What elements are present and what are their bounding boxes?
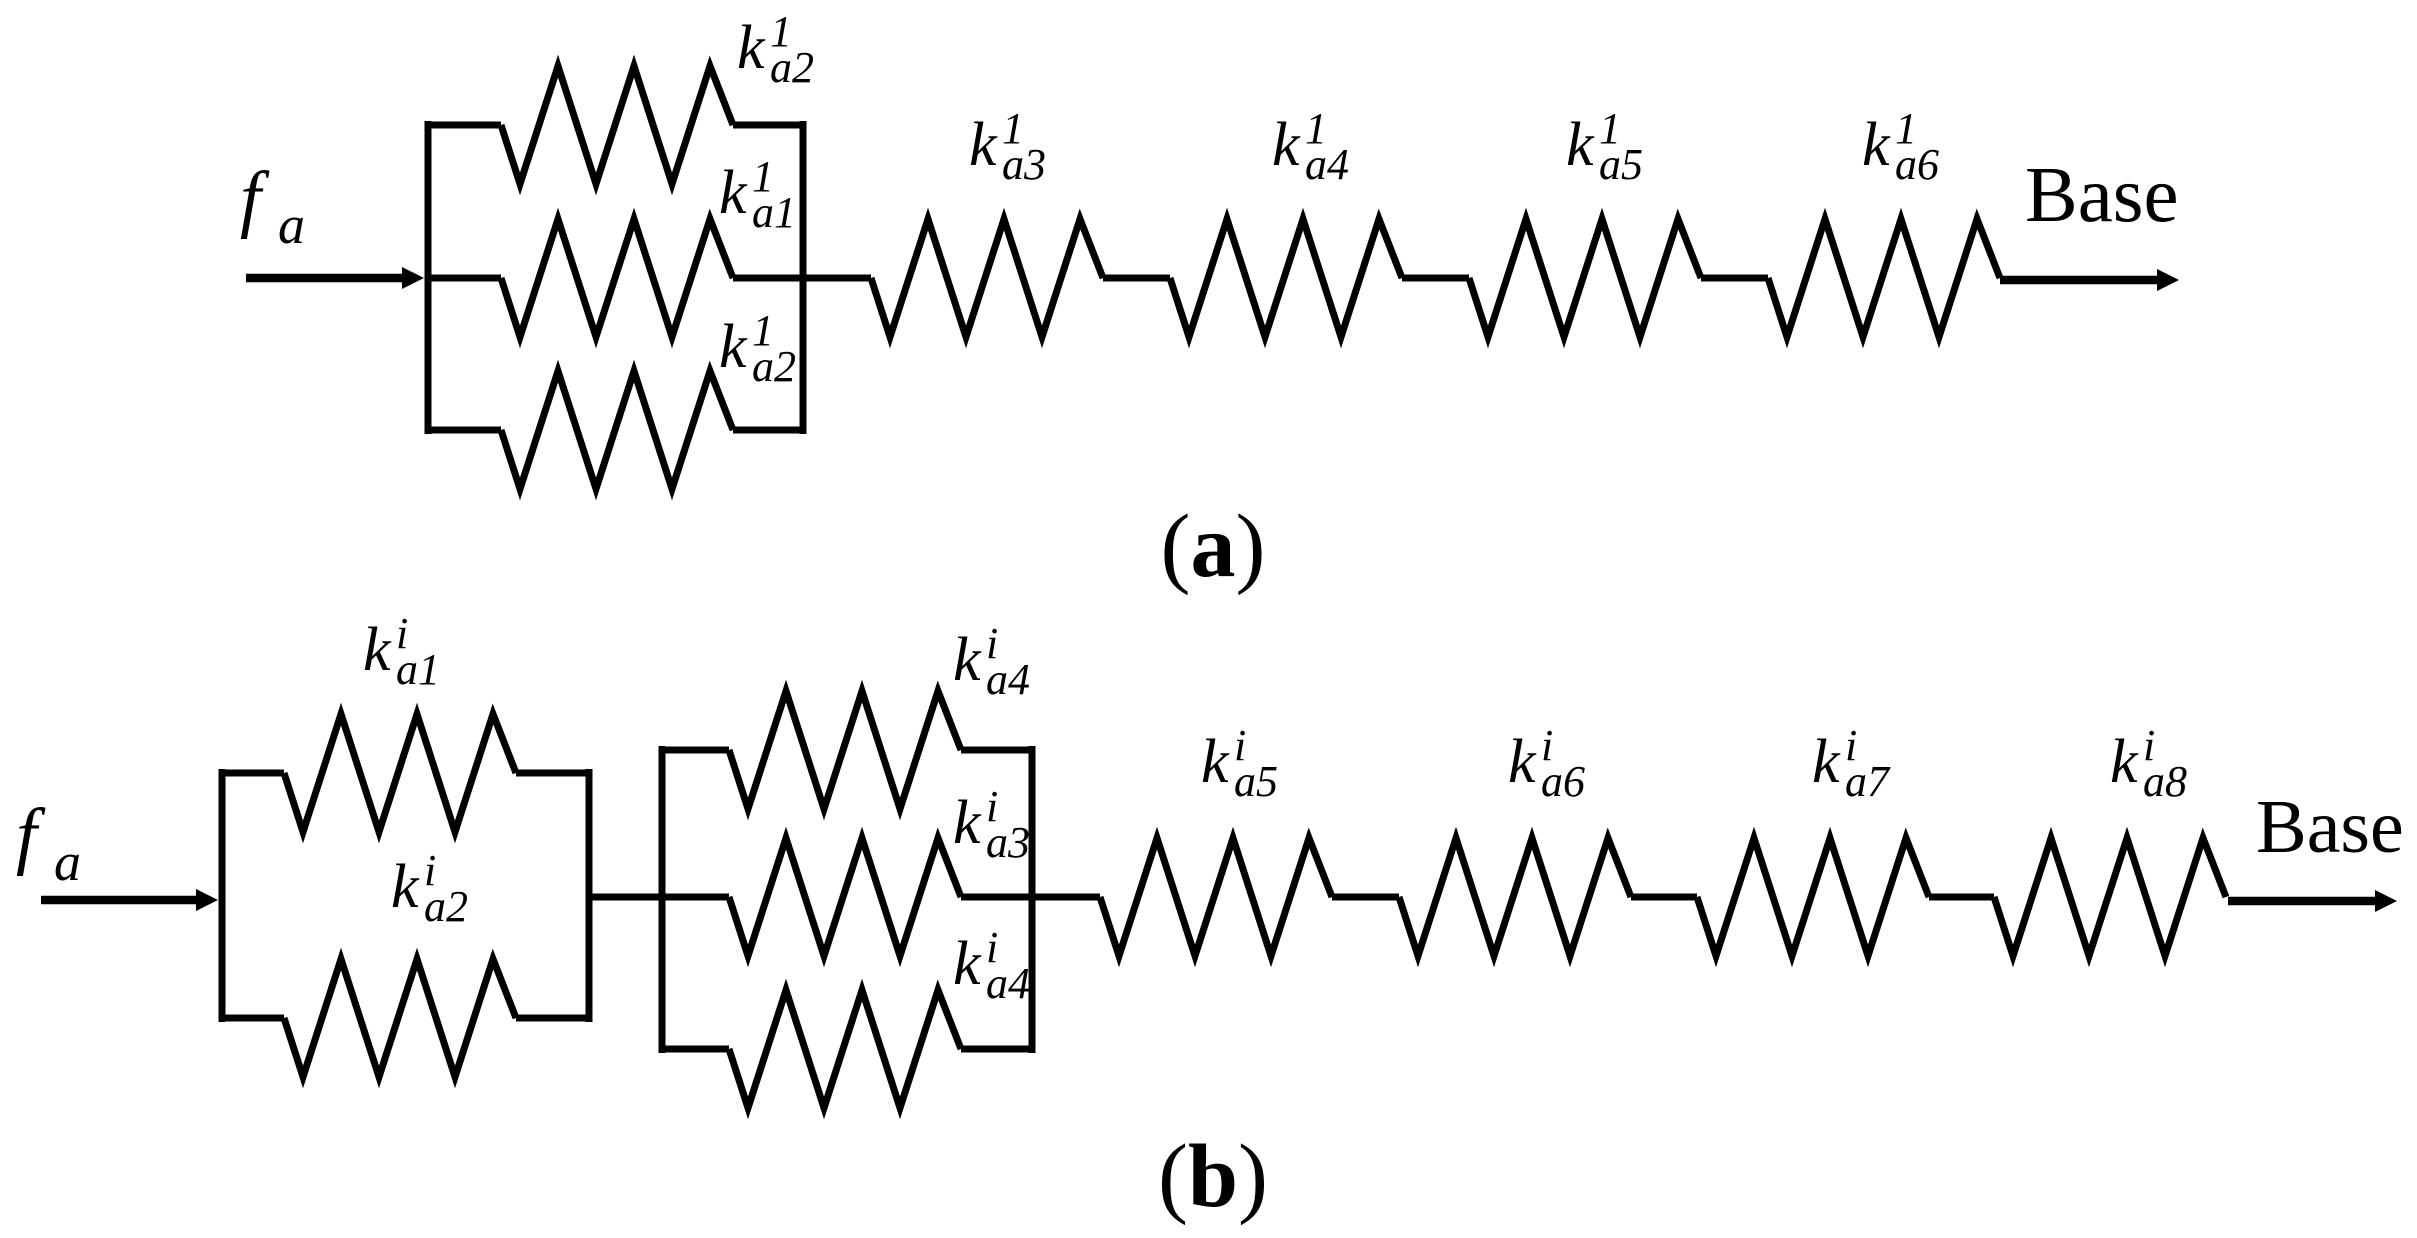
svg-text:a1: a1 (752, 188, 796, 237)
svg-text:a1: a1 (396, 645, 440, 694)
label ka1^i (b) (363, 609, 440, 694)
wire mid-right to series chain (b) (961, 894, 1100, 901)
spring ka7^i (b) (1697, 838, 1929, 956)
wire mid-left branch block2 (b) (659, 894, 729, 901)
wire bottom-right branch block1 (b) (516, 1015, 592, 1022)
svg-text:k: k (363, 616, 392, 684)
label ka6^i (b) (1508, 721, 1585, 806)
svg-text:a: a (54, 832, 81, 892)
svg-text:k: k (1508, 728, 1537, 796)
spring ka4^1 (a) (1170, 219, 1402, 337)
spring ka1^i top block1 (b) (284, 714, 516, 832)
wire bottom-left branch (a) (425, 427, 501, 434)
svg-text:k: k (719, 159, 748, 227)
label ka8^i (b) (2110, 721, 2187, 806)
svg-text:Base: Base (2256, 785, 2404, 869)
svg-text:k: k (953, 789, 982, 857)
wire bottom-left branch block2 (b) (659, 1046, 729, 1053)
svg-text:k: k (1566, 111, 1595, 179)
left rail of parallel block 1 (b) (219, 769, 226, 1022)
wire mid-right to series chain (a) (733, 275, 871, 282)
svg-text:Base: Base (2025, 152, 2179, 239)
svg-text:a8: a8 (2143, 757, 2187, 806)
svg-text:k: k (969, 111, 998, 179)
right rail of parallel block 1 (b) (586, 769, 593, 1022)
wire between ka4 and ka5 (a) (1402, 275, 1469, 282)
right rail of parallel block (a) (800, 121, 807, 434)
svg-text:a4: a4 (986, 959, 1030, 1008)
svg-text:a2: a2 (424, 882, 468, 931)
spring ka3^1 (a) (871, 219, 1103, 337)
label ka1^1 middle (a) (719, 152, 796, 237)
left rail of parallel block 2 (b) (659, 746, 666, 1053)
spring ka5^1 (a) (1469, 219, 1701, 337)
svg-text:k: k (391, 853, 420, 921)
svg-text:k: k (1812, 728, 1841, 796)
label ka7^i (b) (1812, 721, 1891, 806)
svg-text:k: k (953, 930, 982, 998)
svg-text:a4: a4 (986, 655, 1030, 704)
wire between ka5 and ka6 (b) (1332, 894, 1399, 901)
spring ka2^i bottom block1 (b) (284, 959, 516, 1077)
wire top-left branch (a) (425, 122, 501, 129)
input force arrow (b) (41, 889, 218, 911)
label ka2^1 top (a) (737, 7, 814, 92)
label ka2^1 bottom (a) (719, 306, 796, 391)
svg-text:a5: a5 (1599, 140, 1643, 189)
wire between ka7 and ka8 (b) (1929, 894, 1994, 901)
left rail of parallel block (a) (425, 121, 432, 434)
wire bottom-left branch block1 (b) (219, 1015, 284, 1022)
wire top-left branch block2 (b) (659, 747, 729, 754)
wire bottom-right branch block2 (b) (961, 1046, 1035, 1053)
svg-text:(a): (a) (1161, 497, 1266, 596)
wire between ka3 and ka4 (a) (1103, 275, 1170, 282)
output arrow to base (a) (2000, 269, 2179, 291)
wire top-left branch block1 (b) (219, 770, 284, 777)
label ka3^i middle (b) (953, 782, 1030, 867)
spring ka2^1 top (a) (501, 66, 733, 184)
svg-text:k: k (719, 313, 748, 381)
svg-text:a2: a2 (752, 342, 796, 391)
label ka4^i top (b) (953, 619, 1030, 704)
svg-text:a5: a5 (1234, 757, 1278, 806)
wire between block1 and block2 (b) (589, 894, 662, 901)
svg-text:a6: a6 (1895, 140, 1939, 189)
output arrow to base (b) (2228, 890, 2397, 912)
force label f_a (a) (240, 157, 305, 255)
wire top-right branch block2 (b) (961, 747, 1035, 754)
wire between ka5 and ka6 (a) (1701, 275, 1768, 282)
svg-text:(b): (b) (1158, 1127, 1268, 1226)
spring ka4^i bottom block2 (b) (729, 990, 961, 1108)
svg-text:a: a (278, 195, 305, 255)
input force arrow (a) (246, 267, 424, 289)
wire mid-left branch (a) (425, 275, 501, 282)
label ka2^i (b) (391, 846, 468, 931)
label ka6^1 (a) (1862, 104, 1939, 189)
spring ka4^i top block2 (b) (729, 691, 961, 809)
svg-text:a7: a7 (1845, 757, 1891, 806)
wire between ka6 and ka7 (b) (1631, 894, 1697, 901)
spring ka8^i (b) (1994, 838, 2226, 956)
svg-text:a4: a4 (1305, 140, 1349, 189)
spring ka6^1 (a) (1768, 219, 2000, 337)
spring ka1^1 middle (a) (501, 219, 733, 337)
wire top-right branch (a) (733, 122, 806, 129)
label ka4^1 (a) (1272, 104, 1349, 189)
label ka3^1 (a) (969, 104, 1046, 189)
spring ka5^i (b) (1100, 838, 1332, 956)
svg-text:k: k (737, 14, 766, 82)
wire bottom-right branch (a) (733, 427, 806, 434)
svg-text:a2: a2 (770, 43, 814, 92)
spring ka6^i (b) (1399, 838, 1631, 956)
svg-text:k: k (2110, 728, 2139, 796)
label ka5^i (b) (1201, 721, 1278, 806)
spring ka2^1 bottom (a) (501, 371, 733, 489)
svg-text:k: k (1201, 728, 1230, 796)
force label f_a (b) (16, 794, 81, 892)
spring ka3^i middle block2 (b) (729, 838, 961, 956)
label ka4^i bottom (b) (953, 923, 1030, 1008)
svg-text:k: k (1862, 111, 1891, 179)
svg-text:k: k (1272, 111, 1301, 179)
svg-text:k: k (953, 626, 982, 694)
svg-text:a3: a3 (986, 818, 1030, 867)
label ka5^1 (a) (1566, 104, 1643, 189)
svg-text:a3: a3 (1002, 140, 1046, 189)
svg-text:a6: a6 (1541, 757, 1585, 806)
right rail of parallel block 2 (b) (1029, 746, 1036, 1053)
wire top-right branch block1 (b) (516, 770, 592, 777)
